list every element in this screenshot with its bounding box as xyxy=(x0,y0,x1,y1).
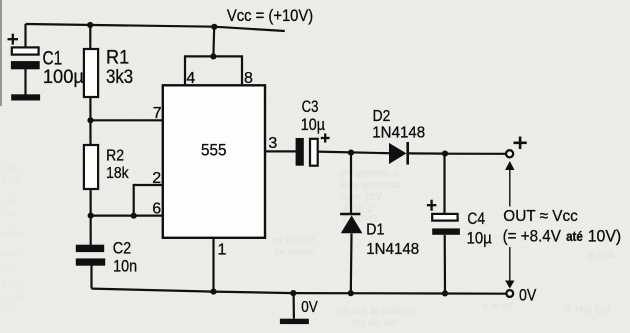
svg-text:1: 1 xyxy=(218,242,227,259)
svg-text:Vcc = (+10V): Vcc = (+10V) xyxy=(227,7,313,25)
svg-text:tse: tse xyxy=(2,262,16,273)
svg-text:10V): 10V) xyxy=(588,227,622,246)
svg-text:em t: em t xyxy=(2,196,22,207)
svg-text:lsa: lsa xyxy=(2,208,16,219)
svg-text:mr s: mr s xyxy=(2,250,22,261)
svg-text:me: me xyxy=(2,304,17,315)
svg-text:100µ: 100µ xyxy=(43,66,84,88)
svg-text:8: 8 xyxy=(244,70,253,87)
svg-text:re snmo: re snmo xyxy=(276,247,314,258)
svg-text:sd umtrte: sd umtrte xyxy=(272,235,316,246)
svg-text:nd e: nd e xyxy=(2,228,23,239)
svg-text:R2: R2 xyxy=(106,147,124,164)
svg-text:a te sd: a te sd xyxy=(482,301,513,312)
svg-text:7: 7 xyxy=(153,105,162,122)
svg-text:C4: C4 xyxy=(467,209,485,228)
svg-text:0V: 0V xyxy=(519,285,537,304)
svg-text:S Mte Eet: S Mte Eet xyxy=(565,305,611,316)
svg-text:1N4148: 1N4148 xyxy=(366,241,419,258)
svg-text:2: 2 xyxy=(152,170,161,187)
svg-text:D1: D1 xyxy=(366,222,384,239)
svg-text:ms de ter: ms de ter xyxy=(352,318,396,329)
svg-text:bam 12V: bam 12V xyxy=(341,192,383,203)
svg-text:um gnsrmo e: um gnsrmo e xyxy=(338,168,399,179)
svg-text:em srs al wdenm: em srs al wdenm xyxy=(336,306,415,317)
svg-text:10n: 10n xyxy=(113,257,137,275)
svg-text:555: 555 xyxy=(201,141,227,160)
svg-text:4: 4 xyxy=(186,70,195,87)
svg-text:10µ: 10µ xyxy=(301,116,326,134)
svg-text:0V: 0V xyxy=(301,299,318,316)
svg-text:OUT ≈ Vcc: OUT ≈ Vcc xyxy=(503,207,578,225)
svg-text:18k: 18k xyxy=(106,165,129,182)
svg-text:C3: C3 xyxy=(302,98,319,116)
svg-text:a snd: a snd xyxy=(588,250,613,261)
svg-text:ed m: ed m xyxy=(2,280,25,291)
svg-text:mb s: mb s xyxy=(2,164,24,175)
svg-text:3k3: 3k3 xyxy=(106,66,133,88)
svg-text:3: 3 xyxy=(268,135,277,152)
svg-text:10µ: 10µ xyxy=(467,229,492,248)
svg-text:(= +8.4V: (= +8.4V xyxy=(503,227,562,246)
svg-text:may glemssb: may glemssb xyxy=(340,180,401,191)
svg-text:6: 6 xyxy=(152,201,161,218)
svg-text:C2: C2 xyxy=(113,240,132,258)
svg-text:D2: D2 xyxy=(373,108,391,125)
svg-text:1N4148: 1N4148 xyxy=(372,125,425,142)
svg-text:sn d: sn d xyxy=(2,292,22,303)
svg-text:snd: snd xyxy=(2,176,19,187)
svg-text:até: até xyxy=(566,229,583,244)
